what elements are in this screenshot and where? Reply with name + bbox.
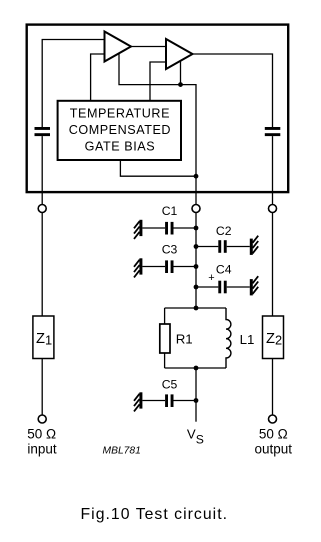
terminal pin left (38, 205, 46, 213)
capacitor C3 (142, 260, 196, 273)
junction loop top (194, 306, 199, 311)
wire bias block bottom (120, 160, 196, 176)
wire amp A2 output to output cap (191, 54, 273, 127)
impedance Z2 (263, 316, 284, 359)
svg-text:C3: C3 (162, 243, 178, 257)
junction C5 (194, 398, 199, 403)
svg-text:50 Ω: 50 Ω (259, 427, 288, 442)
wire left terminal to Z1 (41, 213, 43, 317)
wire amp A2 source tap (180, 61, 182, 85)
gate bias block box (58, 101, 181, 160)
wire loop bottom (165, 367, 226, 369)
terminal pin right (269, 205, 277, 213)
wire bus to C5 and VS (195, 368, 197, 422)
wire Z2 to output terminal (272, 359, 274, 416)
junction amp A2 tap (178, 82, 183, 87)
ground C3 (134, 258, 142, 277)
svg-text:MBL781: MBL781 (103, 446, 141, 457)
capacitor C1 (142, 222, 196, 235)
wire amp A1 source tap (119, 54, 196, 205)
wire input cap to amp A1 (42, 40, 104, 128)
svg-text:R1: R1 (176, 332, 193, 347)
svg-text:Z1: Z1 (36, 331, 52, 348)
ground C4 (250, 276, 258, 295)
wire loop left (164, 308, 166, 325)
svg-text:input: input (27, 441, 57, 456)
device outline box (27, 25, 289, 193)
capacitor C2 (196, 240, 250, 253)
wire bias to amp A1 input (91, 54, 105, 101)
terminal pin middle (192, 205, 200, 213)
ground C5 (134, 392, 142, 411)
junction C2 (194, 244, 199, 249)
svg-text:50 Ω: 50 Ω (27, 427, 56, 442)
svg-text:TEMPERATURE: TEMPERATURE (70, 106, 170, 120)
output terminal circle (269, 415, 277, 423)
junction bias bottom (194, 174, 199, 179)
junction C1 (194, 226, 199, 231)
ground C1 (134, 220, 142, 239)
wire right terminal to Z2 (272, 213, 274, 317)
wire bias to amp A2 input (150, 62, 166, 101)
internal output capacitor (265, 127, 281, 136)
inductor L1 (226, 308, 231, 368)
junction loop bottom (194, 366, 199, 371)
svg-text:Z2: Z2 (266, 331, 282, 348)
resistor R1 (160, 324, 170, 353)
svg-text:GATE BIAS: GATE BIAS (85, 140, 156, 154)
svg-text:C5: C5 (162, 377, 178, 391)
svg-text:Fig.10 Test circuit.: Fig.10 Test circuit. (81, 506, 228, 523)
impedance Z1 (33, 316, 54, 359)
amplifier A2 (166, 39, 193, 69)
capacitor C5 (142, 394, 196, 407)
svg-text:+: + (208, 272, 214, 284)
amplifier A1 (105, 32, 132, 62)
svg-text:L1: L1 (240, 332, 255, 347)
svg-text:C1: C1 (162, 204, 178, 218)
junction C3 (194, 264, 199, 269)
junction C4 (194, 285, 199, 290)
wire supply bus (195, 213, 197, 309)
svg-text:output: output (255, 441, 293, 456)
ground C2 (250, 236, 258, 255)
internal input capacitor (35, 127, 51, 136)
capacitor C4 (196, 281, 250, 294)
wire output cap to terminal (272, 136, 274, 205)
svg-text:COMPENSATED: COMPENSATED (69, 123, 171, 137)
wire amp A1 output to amp A2 input (130, 46, 166, 48)
input terminal circle (38, 415, 46, 423)
svg-text:C2: C2 (216, 224, 232, 238)
svg-text:C4: C4 (216, 263, 232, 277)
wire R1 L1 loop top (165, 307, 226, 309)
wire input cap to terminal (41, 136, 43, 205)
wire Z1 to input terminal (41, 359, 43, 416)
